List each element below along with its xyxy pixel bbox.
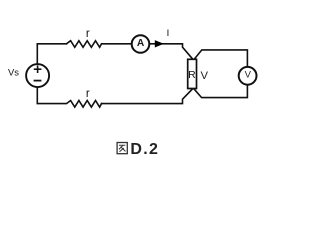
svg-text:R: R: [188, 70, 196, 81]
svg-text:V: V: [245, 69, 252, 80]
svg-text:r: r: [86, 88, 90, 100]
svg-text:A: A: [137, 38, 145, 49]
svg-text:D.2: D.2: [130, 141, 159, 158]
svg-text:I: I: [167, 28, 170, 39]
svg-text:r: r: [86, 28, 90, 40]
svg-text:V: V: [201, 70, 209, 82]
svg-text:Vs: Vs: [8, 66, 19, 77]
